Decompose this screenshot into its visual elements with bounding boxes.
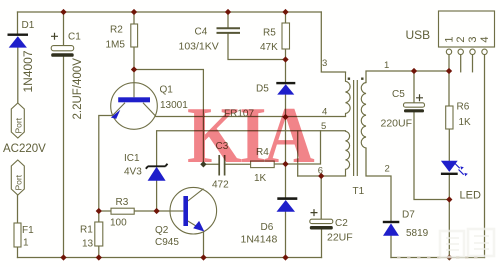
- wire base node to C3 column: [134, 70, 203, 165]
- wire R6 bottom to LED: [448, 129, 450, 161]
- capacitor C2 22UF: [310, 209, 333, 229]
- watermark KIA: [187, 96, 315, 166]
- wire R6 top: [448, 71, 450, 106]
- capacitor C3 472: [219, 155, 224, 176]
- LED: [441, 161, 468, 177]
- node C4 R5 D5: [282, 56, 288, 62]
- svg-text:C945: C945: [155, 237, 179, 248]
- transformer T1 primary winding lower (pins 5-6): [346, 131, 350, 176]
- wire R5 top: [285, 12, 287, 23]
- capacitor C1 2.2UF/400V: [51, 33, 74, 57]
- wire pin6 riser: [297, 131, 299, 176]
- node USB pin1 output: [446, 68, 452, 74]
- svg-text:USB: USB: [406, 28, 431, 42]
- wire R1 bottom: [98, 246, 100, 258]
- transformer T1 secondary winding (pins 1-2): [361, 83, 366, 149]
- node C3 Q2 collector: [200, 161, 206, 167]
- wire Q2 emitter down to rail: [203, 231, 205, 258]
- svg-text:13001: 13001: [160, 100, 188, 111]
- USB connector box: [439, 11, 495, 55]
- svg-text:C4: C4: [195, 27, 208, 38]
- fuse F1: [14, 223, 21, 247]
- node R2 bottom / Q1 base: [131, 66, 137, 72]
- svg-text:1: 1: [23, 238, 29, 249]
- port Port1 (AC input): [11, 103, 24, 138]
- svg-text:2: 2: [385, 164, 390, 175]
- svg-text:LED: LED: [460, 190, 481, 202]
- wire C4 top: [227, 12, 229, 27]
- svg-text:D7: D7: [402, 210, 415, 221]
- svg-text:2: 2: [455, 36, 467, 42]
- wire R4 node to pin5 connector L: [286, 131, 321, 164]
- wire Q1 emitter to R1 column: [99, 116, 113, 212]
- svg-text:R6: R6: [457, 102, 470, 113]
- zener IC1 4V3: [146, 164, 168, 181]
- wire R2 bottom to base node: [133, 47, 135, 70]
- wire F1 to bottom rail: [17, 247, 19, 258]
- svg-text:1: 1: [384, 60, 389, 71]
- svg-text:22UF: 22UF: [327, 232, 353, 244]
- wire USB pin3 stub: [472, 55, 474, 72]
- resistor R3: [111, 208, 134, 214]
- node C5 top: [411, 68, 417, 74]
- transistor Q2 C945: [170, 187, 217, 234]
- node C1 top rail: [60, 9, 66, 15]
- node C4 top rail: [225, 9, 231, 15]
- faint site watermark over secondary rail: [397, 229, 494, 258]
- wire top rail AC+: [18, 11, 322, 13]
- svg-text:T1: T1: [353, 186, 365, 197]
- wire C5 bottom to LED node: [414, 112, 449, 200]
- node R5 top rail: [282, 9, 288, 15]
- resistor R1: [95, 222, 103, 246]
- wire USB pin1 stub: [448, 55, 450, 72]
- svg-text:AC220V: AC220V: [3, 143, 46, 155]
- svg-text:C5: C5: [392, 89, 405, 100]
- wire C2 bottom to rail: [321, 230, 323, 258]
- svg-text:100: 100: [110, 218, 127, 229]
- transformer T1 core: [354, 80, 358, 176]
- wire C1 top (rail to plate): [63, 12, 65, 46]
- wire D1 anode to Port1: [17, 48, 19, 104]
- svg-text:Q1: Q1: [160, 85, 174, 96]
- capacitor C5 220UF: [404, 94, 425, 112]
- node R2 top rail: [131, 9, 137, 15]
- svg-text:5: 5: [321, 121, 326, 132]
- wire R4 node down to D6 cathode: [285, 164, 287, 197]
- resistor R6: [446, 106, 453, 129]
- wire USB pin2 stub: [460, 55, 462, 72]
- node R3 left emitter column: [96, 208, 102, 214]
- svg-text:4V3: 4V3: [124, 167, 142, 178]
- svg-text:Q2: Q2: [155, 225, 169, 236]
- wire R2 top: [133, 12, 135, 24]
- transformer phase dot primary: [348, 78, 350, 80]
- transistor Q1 13001: [111, 70, 158, 130]
- resistor R4: [251, 161, 275, 168]
- diode D6 1N4148: [277, 197, 298, 212]
- svg-text:2.2UF/400V: 2.2UF/400V: [72, 58, 84, 120]
- svg-text:F1: F1: [22, 225, 34, 236]
- svg-text:47K: 47K: [260, 42, 278, 53]
- transformer phase dot secondary: [361, 78, 363, 80]
- diode D1 1N4007: [8, 34, 29, 48]
- wire C2 top: [320, 176, 322, 219]
- capacitor C4 103/1KV: [217, 28, 241, 33]
- svg-text:C1: C1: [68, 32, 81, 43]
- node pin6 C2: [318, 173, 324, 179]
- wire C1 bottom to rail: [63, 57, 65, 258]
- wire left column top (rail corner down to D1): [17, 12, 19, 34]
- wire C5 top: [413, 71, 415, 103]
- wire node to D5 cathode: [285, 60, 287, 83]
- svg-text:5819: 5819: [406, 228, 429, 239]
- svg-text:13: 13: [82, 239, 94, 250]
- svg-text:C2: C2: [335, 218, 348, 229]
- wire R3 right to Q2 base: [134, 210, 170, 212]
- svg-text:3: 3: [467, 36, 479, 42]
- wire C3 to R4: [225, 163, 251, 165]
- wire R5 bottom to node: [285, 49, 287, 60]
- svg-text:R5: R5: [263, 28, 276, 39]
- wire LED node down to rail: [448, 200, 450, 258]
- svg-text:Port: Port: [14, 174, 24, 190]
- svg-text:R2: R2: [110, 25, 123, 36]
- wire R3 left: [99, 210, 111, 212]
- wire D6 anode to rail: [285, 212, 287, 258]
- svg-text:4: 4: [479, 36, 491, 42]
- wire R4 right lead: [274, 163, 285, 165]
- svg-text:D6: D6: [261, 222, 274, 233]
- wire USB pin4 column: [484, 55, 486, 258]
- wire secondary bottom rail: [391, 257, 485, 259]
- wire R1 top: [98, 211, 100, 222]
- wire Q1 collector line to transformer pin4: [156, 116, 346, 118]
- node C1 bottom rail: [60, 254, 66, 260]
- diode D7 5819: [383, 221, 400, 236]
- wire LED cathode down: [448, 175, 450, 200]
- svg-text:1M5: 1M5: [106, 40, 126, 51]
- wire bottom rail primary: [18, 257, 322, 259]
- port Port2 (AC input): [11, 160, 24, 195]
- node D5 anode collector line: [282, 114, 288, 120]
- wire D5 junction down to R4 node: [285, 117, 287, 165]
- svg-text:R1: R1: [80, 225, 93, 236]
- svg-text:R3: R3: [116, 197, 129, 208]
- wire secondary pin2 down to D7: [366, 149, 391, 221]
- svg-text:3: 3: [322, 58, 327, 69]
- node IC1 anode base line: [153, 208, 159, 214]
- node LED C5 minus: [446, 196, 452, 202]
- wire IC1 anode down to base line: [156, 181, 158, 211]
- svg-text:1N4007: 1N4007: [21, 50, 35, 92]
- node R4 pin5 D6: [282, 161, 288, 167]
- svg-text:472: 472: [212, 180, 229, 191]
- svg-text:1N4148: 1N4148: [241, 234, 278, 246]
- wire C3 left lead: [203, 163, 219, 165]
- transformer T1 primary winding upper (pins 3-4): [346, 72, 351, 117]
- wire D5 anode to collector line: [285, 95, 287, 117]
- wire D7 anode to secondary rail: [390, 236, 392, 258]
- node R1 bottom rail: [96, 254, 102, 260]
- wire C4 bottom to R5/D5 node: [228, 34, 286, 60]
- diode D5 FR107: [276, 82, 295, 95]
- node D6 bottom rail: [282, 254, 288, 260]
- resistor R5: [282, 23, 290, 49]
- svg-text:Port: Port: [14, 117, 24, 133]
- svg-text:1K: 1K: [459, 117, 472, 128]
- svg-text:103/1KV: 103/1KV: [179, 41, 219, 53]
- svg-text:4: 4: [322, 107, 327, 118]
- wire pin6 line to transformer: [298, 175, 346, 177]
- node Q2 emitter rail: [200, 254, 206, 260]
- svg-text:220UF: 220UF: [381, 118, 413, 130]
- resistor R2: [131, 24, 138, 47]
- svg-text:D1: D1: [22, 20, 35, 31]
- wire secondary pin1 to USB node: [366, 71, 449, 83]
- wire Port2 to F1: [17, 195, 19, 223]
- svg-text:1: 1: [443, 36, 455, 42]
- svg-text:IC1: IC1: [124, 153, 140, 164]
- wire top rail corner down to pin3: [321, 12, 345, 72]
- wire IC1 cathode up and right (node to pin5 line): [157, 131, 346, 166]
- node secondary rail: [446, 254, 452, 260]
